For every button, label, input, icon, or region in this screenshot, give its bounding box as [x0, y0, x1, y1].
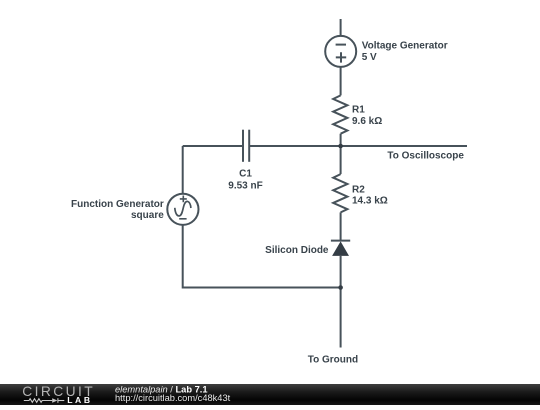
voltage generator minus terminal [336, 44, 346, 46]
wire R1 to node [340, 134, 342, 146]
voltage generator V1 circle [325, 36, 356, 67]
footer attribution bar [0, 384, 540, 405]
svg-text:To Ground: To Ground [308, 355, 358, 366]
resistor R1 zigzag [333, 95, 347, 133]
CircuitLab logo diode triangle [52, 398, 57, 403]
svg-text:R2: R2 [352, 185, 365, 196]
svg-text:C1: C1 [239, 169, 252, 180]
wire top lead above voltage generator [340, 19, 342, 36]
CircuitLab logo resistor-diode glyph [24, 398, 65, 403]
function generator minus sign [179, 218, 186, 220]
function generator sine wave [175, 201, 191, 216]
wire left branch upper [182, 146, 184, 194]
wire C1 to oscilloscope [249, 145, 467, 147]
node junction dot at bottom [338, 285, 343, 290]
svg-text:Silicon Diode: Silicon Diode [265, 245, 329, 256]
resistor R2 zigzag [333, 174, 347, 212]
capacitor C1 left plate [242, 130, 244, 162]
svg-text:9.53 nF: 9.53 nF [228, 180, 262, 191]
svg-text:Function Generator: Function Generator [71, 199, 164, 210]
svg-text:14.3 kΩ: 14.3 kΩ [352, 196, 388, 207]
voltage generator plus terminal [336, 52, 346, 62]
wire diode anode to bottom node [340, 256, 342, 288]
svg-text:5 V: 5 V [362, 52, 377, 63]
svg-text:square: square [131, 210, 164, 221]
svg-text:http://circuitlab.com/c48k43t: http://circuitlab.com/c48k43t [115, 393, 231, 403]
diode D1 cathode bar [331, 240, 350, 242]
wire voltage generator to R1 [340, 67, 342, 95]
svg-text:LAB: LAB [67, 395, 92, 405]
svg-text:R1: R1 [352, 105, 365, 116]
wire R2 to diode cathode [340, 212, 342, 240]
wire node to C1 left plate [183, 145, 243, 147]
svg-text:Voltage Generator: Voltage Generator [362, 41, 448, 52]
function generator V2 circle [167, 194, 198, 225]
capacitor C1 right plate [248, 130, 250, 162]
svg-text:To Oscilloscope: To Oscilloscope [387, 151, 464, 162]
diode D1 triangle [332, 241, 349, 256]
node junction dot at oscilloscope tap [338, 144, 343, 149]
svg-text:9.6 kΩ: 9.6 kΩ [352, 116, 382, 127]
wire bottom horizontal [183, 225, 341, 287]
wire node to R2 [340, 146, 342, 174]
wire bottom node to ground lead [340, 288, 342, 348]
function generator plus sign [180, 196, 187, 203]
